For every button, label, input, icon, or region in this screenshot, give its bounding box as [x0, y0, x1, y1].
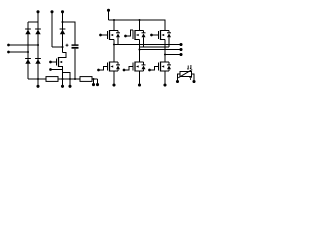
- transistor Q2 upper leg2: [124, 30, 143, 40]
- wire DC+ to cap: [63, 22, 76, 45]
- node NU pin blob: [112, 83, 115, 86]
- wire leg1 midpoint vertical: [113, 40, 115, 62]
- node junction P bus leg2: [138, 19, 140, 21]
- wire output V: [140, 49, 180, 51]
- node junction switch node: [61, 46, 63, 48]
- node PFC inductor return pin blob: [50, 10, 53, 13]
- node rectifier DC- pin blob: [36, 85, 39, 88]
- node junction leg2 / N bus: [37, 78, 39, 80]
- node junction cap/bus: [74, 78, 76, 80]
- node junction staple/bus: [69, 78, 71, 80]
- capacitor C1 plus mark: [66, 44, 69, 47]
- wire diode tie line: [140, 46, 170, 48]
- node AC input N: terminal dot: [7, 51, 10, 54]
- node U terminal blob: [179, 43, 182, 46]
- resistor R1 shunt: [46, 77, 58, 82]
- wire leg1 source stub: [113, 71, 115, 84]
- node thermistor pin 1 blob: [176, 80, 179, 83]
- node inverter P pin blob: [107, 9, 110, 12]
- wire bridge leg 1 vertical: [27, 22, 29, 79]
- wire inductor return to switch node: [52, 46, 63, 48]
- wire AC L to bridge leg 2: [10, 44, 39, 46]
- wire inductor return vertical: [51, 13, 53, 47]
- node NV pin blob: [138, 83, 141, 86]
- thermistor RT1 diagonal: [178, 70, 192, 78]
- wire boost gate: [52, 61, 57, 63]
- resistor R2 shunt: [80, 77, 92, 82]
- node W terminal blob: [179, 53, 182, 56]
- node junction W tap: [164, 53, 166, 55]
- node boost source kelvin dot: [49, 68, 52, 71]
- wire leg2 midpoint vertical: [139, 40, 141, 62]
- transistor Q1 upper leg1: [99, 30, 118, 40]
- wire output U: [114, 44, 180, 46]
- wire leg2 drain tap: [139, 20, 141, 31]
- node NW pin blob: [163, 83, 166, 86]
- diode D1 bridge upper left: [25, 29, 31, 34]
- node N4 pin corner stub: [97, 79, 99, 84]
- wire source branch staple: [63, 73, 71, 80]
- transistor Q7 channel bar: [58, 57, 60, 67]
- node junction V tap: [138, 48, 140, 50]
- wire thermistor left lead: [178, 74, 181, 80]
- wire leg1 drain tap: [113, 20, 115, 31]
- diode D5 boost: [60, 29, 66, 34]
- diode D2 bridge upper right: [35, 29, 41, 34]
- node rectifier DC+ pin blob: [36, 10, 39, 13]
- diode Q3 body: [167, 31, 171, 48]
- wire leg2 source stub: [139, 71, 141, 84]
- wire bridge leg 2 vertical: [37, 13, 39, 85]
- transistor Q7 body arrow: [59, 61, 62, 63]
- wire bridge top jumper: [28, 21, 38, 23]
- transistor Q7 source lead: [59, 67, 63, 80]
- node N3 pin stub: [93, 79, 95, 84]
- transistor Q5 lower leg2: [123, 62, 144, 72]
- node PFC DC+ pin blob: [61, 10, 64, 13]
- wire leg3 midpoint vertical: [164, 40, 166, 62]
- transistor Q7 drain lead: [59, 53, 67, 58]
- node thermistor pin 2 blob: [192, 80, 195, 83]
- transistor Q7 gate bar: [56, 59, 58, 66]
- node N2 pin stub: [69, 79, 71, 85]
- capacitor C1 plates: [72, 44, 79, 46]
- node junction DC+ / cap branch: [61, 21, 63, 23]
- node junction source/bus: [61, 78, 63, 80]
- thermistor T label: [189, 78, 191, 80]
- transistor Q4 lower leg1: [97, 62, 118, 72]
- wire PFC output vertical: [62, 13, 64, 53]
- node AC input L: terminal dot: [7, 44, 10, 47]
- wire kelvin stub: [52, 69, 63, 71]
- wire leg3 source stub: [164, 71, 166, 84]
- wire thermistor right lead: [192, 74, 195, 80]
- diode Q4 body: [116, 62, 120, 71]
- node junction AC-N / leg1: [27, 51, 29, 53]
- wire N bus bottom left: [28, 78, 98, 80]
- diode Q2 body: [142, 31, 146, 48]
- thermistor t-degree marks: [187, 65, 191, 70]
- wire output W: [165, 54, 180, 56]
- diode Q1 body: [116, 31, 120, 45]
- thermistor RT1 box: [180, 72, 192, 77]
- transistor Q3 upper leg3: [150, 30, 169, 40]
- node V terminal blob: [179, 48, 182, 51]
- transistor Q6 lower leg3: [148, 62, 169, 72]
- node junction R2 right / pin: [92, 78, 94, 80]
- node N1 pin stub: [62, 79, 64, 85]
- transistor Q7 boost MOSFET gate stub dot: [49, 61, 52, 64]
- wire AC N to bridge leg 1: [10, 51, 29, 53]
- wire cap bottom lead: [74, 49, 76, 79]
- diode D4 bridge lower right: [35, 59, 41, 64]
- wire P bus top: [109, 20, 166, 31]
- node junction AC-L / leg2: [37, 44, 39, 46]
- node junction P bus leg1: [113, 19, 115, 21]
- diode Q6 body: [167, 62, 171, 71]
- node junction U tap: [113, 43, 115, 45]
- diode D3 bridge lower left: [25, 59, 31, 64]
- wire P pin stub: [108, 11, 110, 20]
- diode Q5 body: [142, 62, 146, 71]
